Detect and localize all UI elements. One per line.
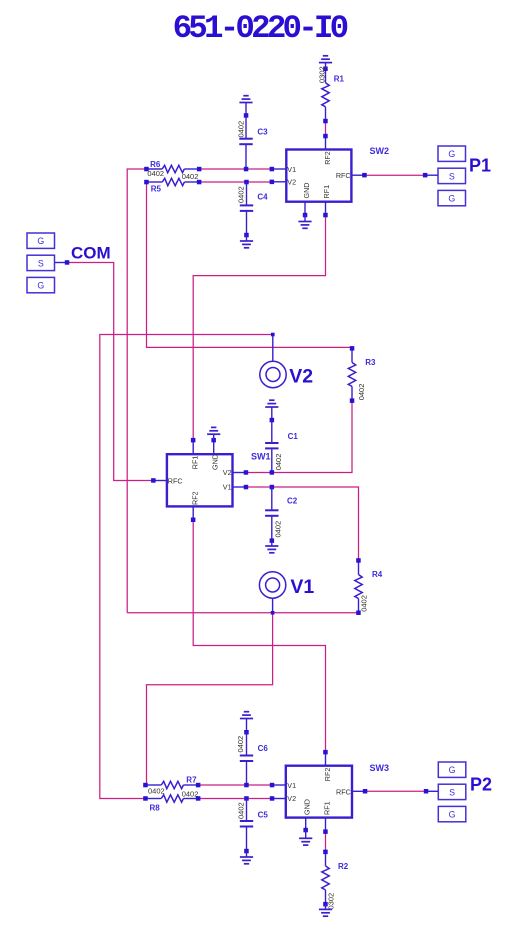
svg-text:G: G [37,236,44,246]
connector P2 (G S G) [438,762,466,777]
resistor R7 [146,784,162,786]
SW3 pin RFC (right) [352,790,365,792]
svg-text:GND: GND [302,183,311,199]
SW2 ground symbol [304,215,306,222]
SW2 pin GND (bottom) [304,202,306,215]
resistor R8 [146,798,162,800]
wire SW1 V1 row to R4 top [246,487,359,561]
svg-text:RF1: RF1 [323,801,332,815]
svg-text:C4: C4 [257,193,268,202]
svg-text:RF2: RF2 [323,151,332,165]
svg-text:C2: C2 [287,497,298,506]
svg-text:C5: C5 [258,810,269,819]
svg-text:G: G [449,765,456,775]
svg-text:V2: V2 [289,366,313,388]
capacitor C5 [244,796,249,801]
wire R7 right to SW3 V1 pin [199,784,272,786]
wire SW3 RF1 to R2 top [325,832,327,852]
svg-text:G: G [37,281,44,291]
capacitor C2 [270,485,275,490]
SW1 pin GND (top) [213,440,215,454]
wire R8 right to SW3 V2 pin [199,798,272,800]
resistor R6 [146,168,162,170]
svg-text:0402: 0402 [274,454,283,471]
SW2 pin V1 (left) [272,168,287,170]
svg-text:RF1: RF1 [322,185,331,199]
SW3 pin RF2 (top) [325,752,327,766]
wire SW2 RF1 to SW1 RF1 [193,215,325,440]
svg-text:V1: V1 [290,576,314,598]
svg-text:C6: C6 [258,744,269,753]
SW1 pin RFC (left) [153,480,167,482]
wire R5 left to R3 top [147,182,353,348]
connector P1 (G S G) [438,146,466,161]
switch block SW1 [167,454,233,506]
SW2 pin RFC (right) [351,174,364,176]
capacitor C3 [239,102,252,104]
svg-text:R6: R6 [150,160,161,169]
SW2 pin RF2 (top) [325,136,327,150]
svg-text:SW3: SW3 [370,763,390,773]
svg-text:R1: R1 [334,74,345,83]
svg-text:C3: C3 [257,128,268,137]
svg-text:SW2: SW2 [370,146,390,156]
svg-text:R5: R5 [151,185,162,194]
resistor R5 [147,181,163,183]
svg-text:COM: COM [71,244,111,263]
svg-text:0402: 0402 [274,521,283,538]
svg-text:V1: V1 [287,781,296,790]
svg-text:P1: P1 [469,156,491,176]
SW3 pin GND (bottom) [305,818,307,830]
svg-text:0302: 0302 [326,893,335,910]
svg-text:0402: 0402 [148,787,165,796]
svg-text:V2: V2 [287,178,296,187]
svg-text:651-0220-I0: 651-0220-I0 [173,10,348,47]
SW2 pin V2 (left) [272,181,287,183]
wire SW1 V2 row to R3 bottom [246,398,352,472]
svg-text:V1: V1 [287,165,296,174]
svg-text:V2: V2 [223,468,232,477]
wire R6 right to SW2 V1 pin [199,168,272,170]
SW1 pin V2 (right) [233,472,246,474]
svg-text:R2: R2 [338,862,349,871]
svg-text:RF2: RF2 [323,768,332,782]
svg-text:GND: GND [210,454,219,470]
SW3 ground symbol [305,830,307,838]
resistor R1 [325,69,327,83]
connector COM (G S G) [27,233,55,248]
wire R5 right to SW2 V2 pin [200,181,272,183]
SW3 pin V2 (left) [272,798,286,800]
svg-text:V1: V1 [223,483,232,492]
svg-text:R4: R4 [372,570,383,579]
capacitor C6 [240,718,253,720]
svg-text:RFC: RFC [336,787,351,796]
wire V2 node to R8 left [100,335,273,799]
wire V1 branch down to R7 left [147,613,273,785]
svg-text:G: G [449,810,456,820]
resistor R3 [351,348,353,362]
svg-text:0402: 0402 [182,172,199,181]
wire R1 bottom to SW2 RF2 pin [325,122,327,136]
wire R6 left down to V1 row [127,169,146,613]
SW3 pin RF1 (bottom) [325,818,327,832]
svg-text:0402: 0402 [236,736,245,753]
svg-text:S: S [449,787,455,797]
ground above R1 [325,63,327,69]
svg-text:0402: 0402 [359,595,368,612]
svg-text:SW1: SW1 [251,451,271,461]
wire SW3 RFC to P2 S pin [365,790,426,792]
P2 S pin stub [426,790,438,792]
svg-text:RF2: RF2 [190,491,199,505]
svg-text:R3: R3 [365,358,376,367]
svg-text:R7: R7 [186,775,197,784]
SW1 pin RF2 (bottom) [192,506,194,519]
svg-text:0402: 0402 [147,169,164,178]
svg-text:RFC: RFC [336,171,351,180]
svg-text:RFC: RFC [168,476,183,485]
wire V1 row: to R4 bottom [127,612,358,614]
SW2 pin RF1 (bottom) [325,202,327,215]
svg-text:P2: P2 [470,775,492,795]
ground below R2 [325,904,327,909]
wire COM net: COM S pin to SW1 RFC [67,263,153,481]
svg-text:C1: C1 [288,432,299,441]
svg-text:0402: 0402 [237,802,246,819]
capacitor C1 [265,406,278,408]
svg-text:G: G [448,194,455,204]
COM S pin stub [55,262,68,264]
switch block SW2 [286,150,351,202]
test point V2 [260,361,286,387]
svg-text:0302: 0302 [317,66,326,83]
svg-text:0402: 0402 [357,384,366,401]
svg-text:0402: 0402 [237,121,246,138]
P1 S pin stub [425,174,438,176]
wire SW1 RF2 to SW3 RF2 [193,520,325,752]
SW3 pin V1 (left) [272,784,286,786]
resistor R2 [325,852,327,866]
svg-text:V2: V2 [287,794,296,803]
resistor R4 [358,561,360,575]
wire SW2 RFC to P1 S pin [365,174,426,176]
svg-text:R8: R8 [150,803,161,812]
SW1 pin V1 (right) [233,486,246,488]
svg-text:GND: GND [302,799,311,815]
svg-text:S: S [449,171,455,181]
SW1 ground symbol above GND [213,434,215,440]
svg-text:RF1: RF1 [190,456,199,470]
svg-text:0402: 0402 [182,790,199,799]
svg-text:G: G [448,149,455,159]
capacitor C4 [244,180,249,185]
SW1 pin RF1 (top) [192,440,194,454]
svg-text:0402: 0402 [237,186,246,203]
svg-text:S: S [38,258,44,268]
test point V1 [259,572,285,598]
switch block SW3 [286,766,352,818]
